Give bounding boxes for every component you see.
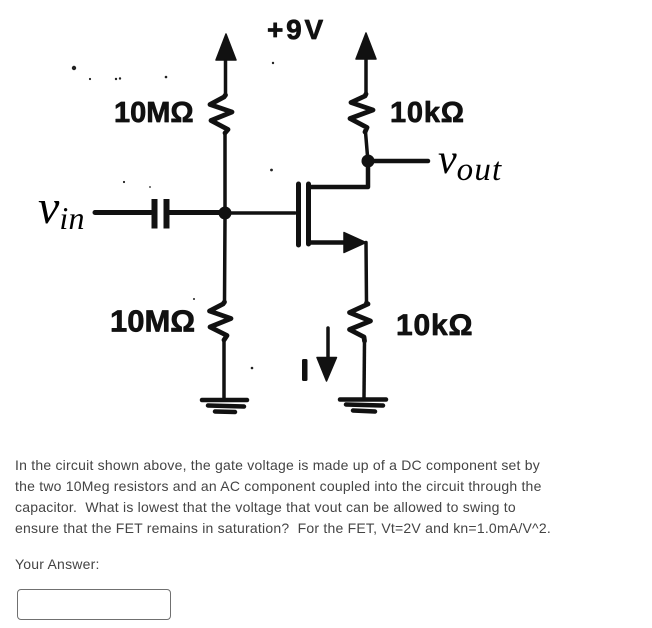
wire: R1 to gate node — [223, 133, 227, 209]
channel bar of M1 — [306, 184, 311, 244]
wire: capacitor to gate node — [169, 210, 221, 215]
source lead of M1 with arrow — [309, 240, 348, 245]
resistor R4 10k (lower right) — [350, 303, 371, 341]
svg-text:10kΩ: 10kΩ — [390, 97, 465, 129]
wire: vin lead — [95, 210, 151, 215]
ground (left) — [202, 400, 247, 412]
wire: drain node to vout — [374, 159, 428, 164]
svg-text:10MΩ: 10MΩ — [110, 304, 195, 339]
power +9V arrow (right branch) — [356, 33, 376, 94]
drain lead of M1 — [309, 166, 368, 187]
ground (right) — [340, 400, 386, 412]
resistor R3 10k (upper right) — [350, 94, 373, 132]
wire: gate node to FET gate — [230, 211, 295, 215]
current arrow I — [317, 328, 337, 381]
label I — [302, 359, 308, 381]
svg-text:+9V: +9V — [267, 14, 326, 45]
wire: source to R4 — [364, 243, 368, 304]
wire: R4 to ground — [362, 341, 366, 398]
wire: R3 to drain node — [366, 132, 368, 156]
resistor R1 10M (upper left) — [210, 95, 232, 133]
wire: gate node down to R2 — [223, 218, 227, 302]
wire: R2 to ground — [222, 340, 226, 400]
resistor R2 10M (lower left) — [210, 302, 232, 340]
node: drain junction dot — [362, 155, 375, 168]
svg-text:10MΩ: 10MΩ — [114, 97, 194, 129]
svg-text:10kΩ: 10kΩ — [396, 309, 473, 342]
node: gate junction dot — [219, 207, 232, 220]
svg-text:vin: vin — [38, 181, 85, 236]
transistor M1 (NMOS) — [299, 166, 369, 253]
gate bar of M1 — [296, 184, 301, 245]
svg-text:vout: vout — [438, 137, 502, 188]
capacitor C1 — [155, 199, 167, 229]
power +9V arrow (left branch) — [216, 34, 236, 95]
